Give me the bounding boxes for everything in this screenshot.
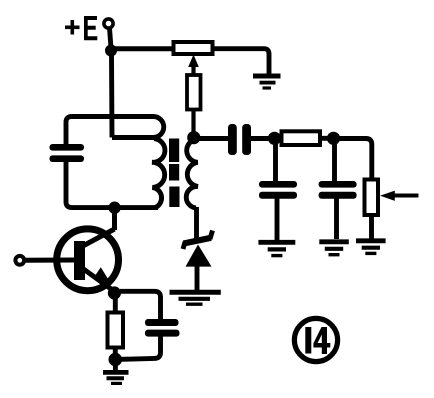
wire emitter node to C5 — [120, 291, 161, 320]
inductor L1 primary scallops — [152, 139, 165, 208]
R4 wiper arrow — [380, 191, 419, 201]
ground G4 — [356, 241, 386, 254]
ground G6 — [103, 363, 129, 383]
wiper arrow R1 — [188, 55, 199, 77]
capacitor C1 — [50, 144, 85, 162]
wire C5 to junction E2 — [121, 336, 161, 359]
wire junction D down to C3 — [273, 140, 278, 182]
wire junction A to pot R1 — [111, 46, 174, 51]
diode D1 cathode bar — [183, 231, 213, 250]
junction C secondary top — [187, 131, 200, 144]
wire base lead — [25, 258, 75, 263]
wire R3 to junction E — [320, 136, 330, 141]
potentiometer R1 body — [174, 42, 213, 54]
junction A — [105, 45, 117, 57]
transistor Q1 emitter lead — [80, 267, 115, 292]
inductor L2 secondary — [186, 140, 198, 208]
wire junction C to C2 — [194, 136, 229, 141]
resistor R5 body — [108, 313, 124, 348]
capacitor C2 — [228, 124, 251, 155]
junction D — [268, 132, 281, 145]
wire +E tap to coil — [109, 53, 114, 138]
wire C3 to ground G2 — [275, 199, 280, 241]
base terminal — [15, 256, 24, 265]
diode D1 triangle — [186, 245, 212, 267]
transistor Q1 circle — [57, 229, 119, 291]
terminal +E — [104, 19, 113, 28]
wire junction E down to C4 — [332, 140, 337, 182]
transistor Q1 collector lead — [80, 229, 115, 248]
potentiometer R4 body — [365, 180, 379, 216]
junction E2 — [109, 353, 123, 367]
wire junction E to R4 — [337, 139, 372, 181]
wire tank top — [66, 117, 150, 146]
figure label 14 text — [305, 327, 330, 354]
capacitor C5 — [145, 319, 180, 337]
+E label — [65, 16, 97, 40]
wire R5 to junction E2 — [113, 348, 118, 358]
wire tank bottom — [66, 161, 158, 208]
resistor R3 body — [282, 131, 321, 145]
wire junction B to transistor — [112, 208, 117, 230]
inductor L1 primary hairpin — [112, 116, 164, 137]
wire emitter node to R5 — [113, 295, 118, 313]
transistor Q1 emitter arrow — [93, 267, 110, 282]
capacitor C3 — [259, 181, 297, 199]
wire C4 to ground G3 — [334, 199, 339, 240]
ground G1 — [253, 76, 281, 88]
figure label 14 circle — [294, 318, 337, 361]
transistor Q1 base bar — [74, 241, 85, 280]
wire pot R1 to ground G1 — [213, 49, 270, 74]
junction E — [327, 132, 340, 145]
resistor R2 body — [187, 75, 201, 110]
wire R4 to ground G4 — [369, 215, 374, 239]
ground G5 — [170, 292, 221, 304]
ground G2 — [258, 242, 295, 255]
wire R2 to junction C — [191, 110, 195, 135]
capacitor C4 — [319, 181, 357, 199]
ground G3 — [319, 242, 349, 255]
wire C2 to junction D — [250, 136, 270, 141]
transformer core — [169, 139, 180, 208]
wire terminal to junction A — [110, 28, 112, 48]
junction B collector node — [108, 202, 120, 214]
junction E1 emitter node — [108, 286, 121, 299]
wire L2 to diode D1 — [194, 207, 199, 239]
wire D1 to ground G5 — [195, 266, 200, 290]
